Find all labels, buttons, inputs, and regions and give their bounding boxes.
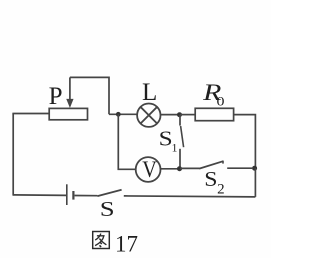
node: right-side junction (252, 166, 257, 171)
node: lamp / R0 / S1 junction (177, 112, 182, 117)
battery: long plate (66, 184, 68, 205)
wire: top-left horizontal to P left terminal (12, 113, 49, 115)
rheostat P body (49, 108, 87, 119)
wire: wiper up and over to right (70, 77, 109, 114)
svg-text:V: V (142, 157, 157, 182)
wire: voltmeter branch down and right (118, 114, 135, 169)
svg-text:1: 1 (172, 141, 178, 155)
wire: node to R0 (180, 114, 195, 116)
lamp L (137, 104, 160, 127)
voltmeter V (136, 157, 161, 182)
svg-text:0: 0 (217, 95, 225, 109)
wire: R0 to top-right corner and down (234, 115, 256, 169)
wire: left vertical side (12, 114, 14, 196)
switch S (open blade) (97, 190, 121, 196)
battery: short thick plate (72, 191, 74, 200)
svg-text:P: P (49, 83, 63, 110)
caption: character 图 (drawn) (93, 232, 110, 249)
svg-text:2: 2 (217, 182, 225, 198)
wire: main top run to lamp (109, 113, 137, 115)
switch S1 (vertical, open) (180, 115, 184, 169)
switch S2 (horizontal, open) (180, 161, 252, 169)
wire: bottom left segment to battery (13, 194, 66, 197)
svg-text:S: S (204, 168, 217, 191)
svg-text:S: S (100, 199, 115, 221)
wire: voltmeter to S2 node (161, 168, 181, 170)
node: junction voltmeter tap (116, 112, 121, 117)
wire: right vertical lower (254, 168, 256, 197)
wire: switch S to bottom-right corner (124, 196, 256, 197)
resistor R0 body (195, 108, 233, 120)
wire: lamp to junction node (161, 114, 181, 116)
wire: battery to switch S (75, 195, 98, 197)
svg-text:L: L (142, 79, 157, 106)
node: voltmeter / S1 / S2 junction (177, 166, 182, 171)
svg-text:17: 17 (115, 231, 138, 256)
rheostat wiper arrow (67, 77, 73, 107)
